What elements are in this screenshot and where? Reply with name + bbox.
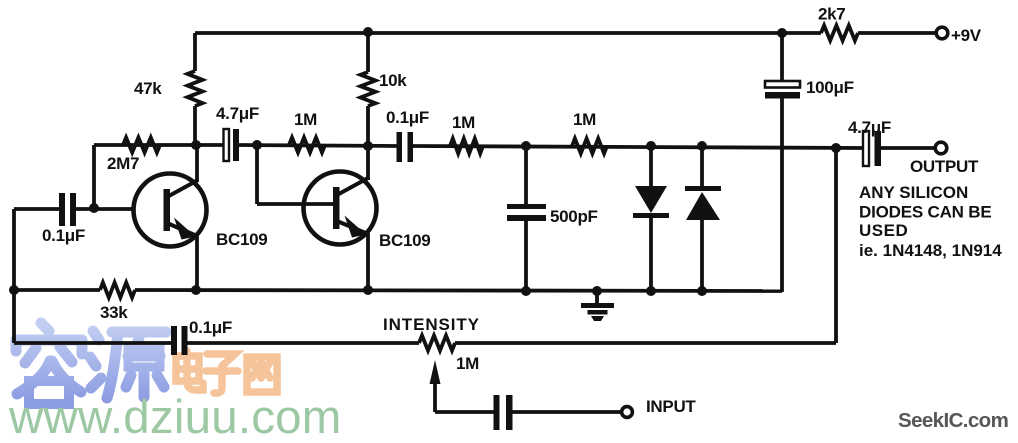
wire top supply rail right of 2k7: [858, 31, 936, 35]
signal line segment 1: [94, 143, 224, 147]
svg-text:DIODES CAN BE: DIODES CAN BE: [859, 203, 991, 222]
left rail vertical: [12, 209, 16, 343]
capacitor input series: [494, 395, 500, 430]
ground symbol: [592, 286, 602, 296]
node signal/10k/Q2 collector: [363, 141, 373, 151]
svg-text:1M: 1M: [456, 354, 479, 373]
svg-text:INPUT: INPUT: [646, 397, 696, 416]
svg-text:ie. 1N4148, 1N914: ie. 1N4148, 1N914: [859, 241, 1002, 260]
svg-text:0.1μF: 0.1μF: [42, 226, 85, 245]
node ground/Q2 emitter: [363, 285, 373, 295]
capacitor 0.1uF coupling: [397, 132, 403, 162]
resistor 10k: [366, 32, 370, 72]
svg-text:2M7: 2M7: [107, 154, 139, 173]
resistor 2M7: [123, 138, 160, 153]
wire top supply rail left: [195, 31, 821, 35]
wire 2M7 left leg down: [92, 145, 96, 209]
wire 100uF to ground rail: [780, 98, 784, 292]
node ground/D2: [697, 286, 707, 296]
watermark peach 电子网: [176, 351, 277, 393]
resistor 1M (c): [572, 139, 607, 154]
svg-text:1M: 1M: [294, 110, 317, 129]
terminal +9V: [936, 27, 948, 39]
diode D2 anode-down: [700, 146, 704, 188]
svg-text:BC109: BC109: [379, 231, 430, 250]
svg-text:ANY SILICON: ANY SILICON: [859, 183, 968, 202]
terminal INPUT: [622, 407, 633, 418]
resistor 1M (b): [450, 139, 483, 154]
bottom feedback wire seg1: [14, 341, 172, 345]
svg-text:1M: 1M: [573, 110, 596, 129]
diode D1 anode-up: [649, 146, 653, 188]
wire input cap right to base: [76, 207, 134, 211]
Q1 base bar: [164, 189, 171, 231]
resistor 33k: [100, 283, 135, 298]
node top rail at 10k: [363, 27, 373, 37]
wire wiper to input cap: [435, 410, 494, 414]
capacitor 4.7uF coupling: [224, 129, 230, 161]
potentiometer INTENSITY 1M: [419, 336, 455, 351]
node signal/output branch: [831, 143, 841, 153]
capacitor 4.7uF output: [863, 131, 869, 166]
svg-text:+9V: +9V: [951, 26, 982, 45]
wire Q2 base branch: [255, 145, 259, 204]
signal line segment 2: [239, 145, 397, 146]
ground rail wire: [14, 288, 100, 292]
svg-text:10k: 10k: [379, 71, 407, 90]
bottom feedback wire seg3: [455, 341, 836, 345]
capacitor 0.1uF feedback: [171, 326, 177, 355]
svg-text:47k: 47k: [134, 79, 162, 98]
resistor 47k: [193, 33, 197, 71]
svg-text:4.7μF: 4.7μF: [216, 104, 259, 123]
svg-text:100μF: 100μF: [806, 78, 854, 97]
svg-text:500pF: 500pF: [550, 207, 598, 226]
wire cap to INPUT terminal: [513, 410, 622, 414]
node after 4.7uF: [252, 140, 262, 150]
Q2 collector: [337, 178, 368, 195]
svg-text:0.1μF: 0.1μF: [386, 108, 429, 127]
svg-text:OUTPUT: OUTPUT: [910, 157, 979, 176]
node ground/500pF: [521, 286, 531, 296]
node top rail at 100uF branch: [777, 28, 787, 38]
transistor Q2 BC109 circle: [304, 172, 377, 245]
signal line segment 4: [881, 146, 936, 150]
capacitor 500pF: [524, 146, 528, 206]
svg-text:SeekIC.com: SeekIC.com: [898, 409, 1008, 432]
terminal OUTPUT: [935, 142, 947, 154]
node signal/500pF: [521, 141, 531, 151]
node base/2M7: [89, 203, 99, 213]
watermark blue 容源: [16, 323, 166, 404]
resistor 1M (a): [289, 138, 325, 153]
svg-text:33k: 33k: [100, 303, 128, 322]
resistor 2k7: [821, 26, 858, 41]
pot wiper arrow: [430, 360, 441, 384]
transistor Q1 BC109 circle: [134, 174, 207, 247]
node ground/D1: [646, 286, 656, 296]
svg-text:BC109: BC109: [216, 230, 267, 249]
wire input cap left: [14, 207, 59, 211]
node left rail / ground wire: [9, 285, 19, 295]
node ground/Q1 emitter: [191, 285, 201, 295]
svg-text:USED: USED: [859, 221, 908, 240]
svg-text:INTENSITY: INTENSITY: [383, 315, 480, 334]
Q2 base bar: [333, 187, 340, 229]
svg-text:2k7: 2k7: [818, 5, 845, 24]
output branch vertical: [834, 148, 838, 343]
bottom feedback wire seg2: [186, 341, 419, 345]
node signal/diode D2: [697, 141, 707, 151]
capacitor 0.1uF input: [59, 193, 65, 226]
capacitor 100uF electrolytic: [780, 33, 784, 81]
node signal/47k/Q1 collector: [191, 140, 201, 150]
Q1 emitter with arrow: [167, 223, 197, 236]
Q1 collector: [167, 180, 198, 197]
svg-text:1M: 1M: [452, 113, 475, 132]
signal line segment 3: [413, 146, 864, 148]
node signal/diode D1: [646, 141, 656, 151]
svg-text:4.7μF: 4.7μF: [848, 118, 891, 137]
svg-text:www.dziuu.com: www.dziuu.com: [8, 391, 342, 438]
svg-text:0.1μF: 0.1μF: [189, 318, 232, 337]
Q2 emitter with arrow: [337, 221, 368, 234]
